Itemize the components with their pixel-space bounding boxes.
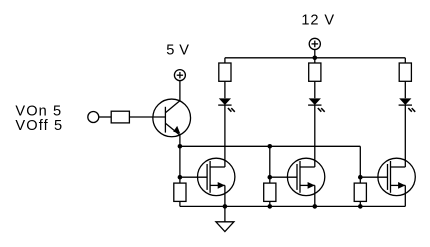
svg-text:VOff 5: VOff 5 <box>15 118 62 134</box>
svg-text:12 V: 12 V <box>301 12 334 28</box>
svg-text:5 V: 5 V <box>166 43 189 59</box>
